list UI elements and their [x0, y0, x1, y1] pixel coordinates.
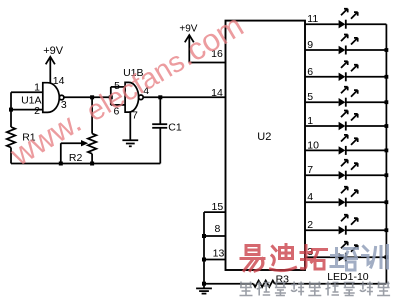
- U2 pin 9 label: [307, 39, 313, 51]
- wire U2 pin 10 to LED6: [305, 149, 339, 151]
- wire bottom rail right of R3: [275, 283, 387, 285]
- U1B pin 7 label: [132, 109, 138, 121]
- wire U1A output: [64, 96, 111, 98]
- ic U2: [226, 21, 306, 270]
- U2 pin 4 label: [307, 191, 313, 203]
- watermark caption text: [240, 282, 391, 296]
- wire LED4 to rail: [346, 101, 387, 103]
- junction rail row 8: [385, 200, 389, 204]
- wire LED1 to rail: [346, 23, 387, 25]
- U2 pin 1 label: [307, 115, 313, 127]
- wire U2 pin 4 to LED8: [305, 201, 339, 203]
- led LED6: [339, 135, 358, 155]
- svg-text:14: 14: [211, 87, 223, 99]
- wire U2 pin 8: [204, 235, 226, 237]
- junction rail row 10: [385, 255, 389, 259]
- wire U2 pin 9 to LED2: [305, 49, 339, 51]
- wire U1A input pin 1: [11, 91, 43, 93]
- U1A pin 1 label: [34, 81, 40, 93]
- svg-text:LED1-10: LED1-10: [327, 271, 369, 283]
- wire U2 pin 15: [204, 211, 226, 213]
- U2 pin 6 label: [307, 66, 313, 78]
- wire bottom rail left of R3: [204, 283, 253, 285]
- U2 pin 16 label: [211, 48, 223, 60]
- junction C1 top: [158, 95, 162, 99]
- led LED3: [339, 61, 358, 81]
- resistor R1: [7, 127, 36, 148]
- wire U2 pin 6 to LED3: [305, 76, 339, 78]
- junction rail row 2: [385, 48, 389, 52]
- junction rail row 3: [385, 75, 389, 79]
- junction U1B input: [109, 95, 113, 99]
- svg-text:8: 8: [214, 223, 220, 235]
- wire U2 pin 11 to LED1: [305, 23, 339, 25]
- svg-text:C1: C1: [168, 121, 182, 133]
- wire LED3 to rail: [346, 76, 387, 78]
- junction pin 8: [202, 234, 206, 238]
- wire R1 bottom: [10, 148, 12, 164]
- +9V supply arrow (left): [43, 45, 64, 83]
- wire U1B output to U2 pin 14: [143, 96, 225, 98]
- wire LED9 to rail: [346, 229, 387, 231]
- led LED8: [339, 187, 358, 207]
- wire U2 pin 16 supply: [189, 62, 225, 64]
- watermark logo text: [241, 245, 388, 272]
- wire LED7 to rail: [346, 174, 387, 176]
- led LED9: [339, 215, 358, 235]
- junction rail row 5: [385, 124, 389, 128]
- wire U2 pin 2 to LED9: [305, 229, 339, 231]
- U2 pin 7 label: [307, 164, 313, 176]
- U1A pin 3 label: [61, 99, 67, 111]
- svg-text:2: 2: [34, 105, 40, 117]
- wire LED2 to rail: [346, 49, 387, 51]
- wire input vertical to R1: [10, 92, 12, 127]
- potentiometer R2: [61, 134, 97, 164]
- U1B pin 5 label: [114, 80, 120, 92]
- U1A pin 2 label: [34, 105, 40, 117]
- LED1-10 value label: [327, 271, 369, 283]
- svg-text:+9V: +9V: [43, 45, 64, 57]
- capacitor C1: [152, 97, 182, 163]
- wire U1A input pin 2: [11, 109, 43, 111]
- wire U1B input bar: [111, 87, 125, 105]
- U2 pin 5 label: [307, 91, 313, 103]
- U2 pin 13 label: [213, 248, 225, 260]
- junction R2 wiper to rail: [59, 162, 63, 166]
- U1A pin 14 label: [53, 75, 65, 87]
- wire LED8 to rail: [346, 201, 387, 203]
- led LED10: [339, 242, 358, 262]
- U1B pin 6 label: [113, 106, 119, 118]
- watermark diagonal: [3, 7, 249, 173]
- svg-text:7: 7: [132, 109, 138, 121]
- wire R2 top lead: [91, 97, 93, 133]
- nand gate U1A: [43, 83, 64, 113]
- resistor R3: [253, 273, 289, 287]
- svg-text:15: 15: [212, 201, 224, 213]
- U1A label: [21, 95, 41, 107]
- junction rail row 7: [385, 173, 389, 177]
- wire U2 pin 7 to LED7: [305, 174, 339, 176]
- U2 pin 8 label: [214, 223, 220, 235]
- U2 pin 11 label: [307, 13, 318, 25]
- led LED1: [339, 9, 358, 29]
- junction rail row 6: [385, 149, 389, 153]
- junction rail row 9: [385, 228, 389, 232]
- wire LED6 to rail: [346, 149, 387, 151]
- svg-text:13: 13: [213, 248, 225, 260]
- junction pins 1-2 tie: [9, 108, 13, 112]
- svg-text:R2: R2: [69, 152, 83, 164]
- led LED7: [339, 160, 358, 180]
- U2 pin 2 label: [307, 219, 313, 231]
- U2 pin 3 label: [307, 246, 313, 258]
- ground (U1B pin 7): [122, 140, 138, 146]
- led LED4: [339, 87, 358, 107]
- wire U2 pin 1 to LED5: [305, 125, 339, 127]
- wire U2 pin 13: [204, 259, 226, 261]
- led LED5: [339, 111, 358, 131]
- junction R2 top tap: [90, 95, 94, 99]
- junction ground node: [202, 282, 206, 286]
- wire LED5 to rail: [346, 125, 387, 127]
- U2 pin 15 label: [212, 201, 224, 213]
- wire U2 pin 5 to LED4: [305, 101, 339, 103]
- svg-text:14: 14: [53, 75, 65, 87]
- wire U2 pin 3 to LED10: [305, 256, 339, 258]
- wire left ground rail: [203, 212, 205, 284]
- junction pin 13: [202, 258, 206, 262]
- junction R2 bottom to rail: [90, 162, 94, 166]
- +9V supply arrow (right): [179, 24, 197, 63]
- junction rail row 4: [385, 100, 389, 104]
- wire LED10 to rail: [346, 256, 387, 258]
- ground (main): [196, 284, 212, 294]
- wire bottom feedback rail: [11, 163, 160, 165]
- U1B pin 4 label: [143, 85, 149, 97]
- wire LED cathode rail: [385, 24, 387, 284]
- U2 pin 10 label: [307, 139, 319, 151]
- led LED2: [339, 35, 358, 55]
- U1B label: [123, 67, 143, 79]
- U2 pin 14 label: [211, 87, 223, 99]
- svg-text:U2: U2: [257, 131, 271, 143]
- nand gate U1B: [125, 82, 143, 112]
- wire U1B pin 7 to ground: [129, 112, 131, 141]
